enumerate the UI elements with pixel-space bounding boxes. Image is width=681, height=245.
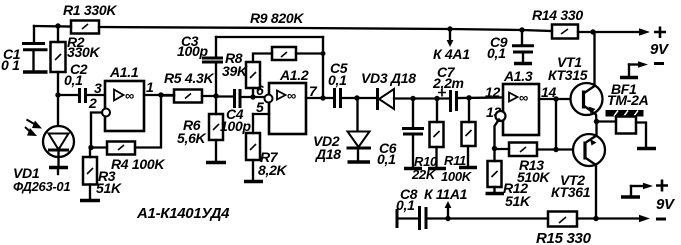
resistor R15 (548, 212, 640, 227)
label R8 39K (222, 50, 248, 79)
svg-text:ТМ-2A: ТМ-2A (607, 92, 649, 108)
node junction R11 (466, 95, 471, 100)
node junction pin13/R12/R13 (492, 146, 497, 151)
node junction K4A1/rail (447, 26, 452, 31)
wire A1.2 output (306, 97, 334, 99)
label minus top (654, 62, 664, 65)
svg-text:0,1: 0,1 (64, 72, 83, 88)
label R13 510K (517, 157, 550, 185)
node junction R8/pin6 wire (250, 94, 255, 99)
label plus bottom (656, 180, 668, 192)
svg-text:330K: 330K (67, 44, 100, 60)
resistor R1 (71, 21, 99, 34)
label R12 51K (503, 180, 531, 209)
capacitor C4 (235, 89, 265, 108)
ground C1 (23, 70, 48, 74)
resistor R9 (272, 47, 323, 60)
op-amp A1.2 (269, 83, 306, 134)
svg-text:A1-К1401УД4: A1-К1401УД4 (136, 205, 230, 222)
label C8 0,1 (396, 186, 418, 213)
label plus top (654, 27, 666, 39)
arrow bottom rail minus (639, 215, 650, 223)
label VD2 D18 (313, 133, 341, 162)
svg-text:39K: 39K (222, 63, 248, 79)
svg-text:3: 3 (94, 80, 102, 96)
capacitor C8 (420, 206, 549, 230)
node junction VT1 collector/rail (590, 29, 595, 34)
label C7 2,2m (432, 64, 464, 91)
label C5 0,1 (328, 60, 348, 88)
svg-text:14: 14 (541, 84, 556, 100)
resistor R14 (552, 25, 578, 39)
label R7 8,2K (258, 149, 288, 178)
svg-text:R15 330: R15 330 (536, 230, 592, 245)
svg-text:К 11A1: К 11A1 (424, 186, 468, 202)
svg-text:∞: ∞ (125, 88, 134, 103)
wire top rail left segment (34, 25, 71, 28)
resistor R11 (462, 98, 476, 166)
ground C9 (514, 62, 532, 66)
wire C3 feedback top (216, 36, 323, 38)
svg-text:9V: 9V (650, 41, 670, 58)
svg-text:8,2K: 8,2K (258, 162, 288, 178)
resistor R5 (161, 90, 216, 103)
svg-text:ФД263-01: ФД263-01 (13, 179, 70, 194)
arrow K 4A1 (447, 29, 454, 47)
node junction R10 (434, 96, 439, 101)
node junction pin14/R13 top (553, 96, 558, 101)
diode VD3 (378, 88, 451, 110)
label C1 0 1 (1, 46, 21, 73)
ground C6 (404, 167, 422, 171)
svg-text:R4 100K: R4 100K (111, 156, 165, 172)
svg-text:0,1: 0,1 (487, 45, 506, 61)
label C4 100p (220, 106, 251, 134)
wire top rail to plus terminal with arrow (578, 28, 650, 36)
capacitor C9 (512, 30, 534, 62)
wire pin2 to feedback node (91, 113, 102, 148)
connector minus top (620, 61, 648, 77)
resistor R6 (209, 96, 223, 161)
svg-text:100p: 100p (220, 118, 251, 134)
label R2 330K (67, 34, 100, 60)
wire R13 feedback vertical (555, 99, 557, 150)
svg-text:2,2m: 2,2m (432, 75, 464, 91)
svg-text:100p: 100p (177, 43, 208, 59)
svg-text:0,1: 0,1 (396, 197, 415, 213)
svg-text:VD3 Д18: VD3 Д18 (361, 70, 416, 86)
pin 2 inverting input circle (102, 109, 110, 117)
svg-text:R11: R11 (444, 153, 466, 168)
svg-text:КТ315: КТ315 (548, 67, 588, 83)
capacitor C7 (438, 89, 503, 113)
ground BF1 (637, 147, 656, 151)
node junction pin2/R4/R3 (88, 145, 93, 150)
photodiode VD1 (43, 95, 74, 166)
svg-text:6: 6 (256, 82, 264, 98)
transistor VT2 (573, 122, 605, 219)
svg-text:К 4A1: К 4A1 (433, 46, 470, 62)
label BF1 TM-2A (607, 81, 649, 108)
ground R11 (459, 166, 477, 170)
node junction VT2 collector/rail (593, 216, 598, 221)
ground R10 (428, 167, 446, 171)
wire feedback right vertical (322, 37, 324, 98)
wire A1.1 output (144, 94, 174, 96)
svg-text:R9 820K: R9 820K (250, 10, 304, 26)
svg-text:∞: ∞ (519, 90, 528, 105)
svg-text:9V: 9V (656, 196, 676, 213)
label R3 51K (96, 168, 122, 196)
label minus bottom (656, 218, 666, 221)
svg-text:510K: 510K (517, 169, 550, 185)
ground VD2 (348, 160, 371, 164)
svg-text:100K: 100K (441, 169, 473, 184)
diode VD2 (347, 98, 372, 160)
capacitor C3 (202, 37, 223, 96)
node junction R2/VD1/C2 (55, 92, 60, 97)
resistor R8 (246, 54, 272, 98)
label C9 0,1 (487, 34, 508, 61)
label C6 0,1 (377, 140, 397, 167)
svg-text:∞: ∞ (287, 88, 296, 103)
label C3 100p (177, 33, 208, 59)
wire top rail main segment (99, 27, 552, 31)
svg-text:2: 2 (88, 95, 97, 111)
node junction C9/rail (519, 27, 524, 32)
node junction R13/VT2 base (553, 147, 558, 152)
svg-text:51K: 51K (96, 180, 122, 196)
label C2 0,1 (64, 61, 88, 88)
wire pin13 down to feedback node (495, 120, 500, 149)
resistor R4 (91, 142, 135, 155)
capacitor C6 (402, 99, 424, 168)
svg-text:Д18: Д18 (315, 146, 341, 162)
ground R6 (206, 161, 226, 165)
resistor R3 (83, 148, 97, 200)
resistor R12 (488, 149, 502, 193)
transistor VT1 (571, 32, 603, 122)
svg-text:R1 330K: R1 330K (63, 2, 117, 18)
node junction R2/rail (55, 23, 60, 28)
svg-text:R5 4.3K: R5 4.3K (164, 70, 214, 86)
wire output down to R4 (135, 95, 161, 148)
wire bottom rail left terminal (397, 209, 419, 228)
ground R3 (80, 199, 100, 203)
label R10 22K (411, 154, 438, 182)
resistor R7 (246, 114, 260, 180)
light arrows VD1 (25, 120, 42, 137)
ground R7 (244, 180, 263, 184)
label R6 5,6K (177, 117, 207, 146)
svg-text:5,6K: 5,6K (177, 130, 207, 146)
svg-text:0 1: 0 1 (1, 57, 20, 73)
label VT1 KT315 (548, 54, 588, 83)
node junction emitters/BF1 (594, 119, 599, 124)
svg-text:A1.3: A1.3 (503, 68, 533, 84)
ground VD1 (49, 168, 68, 175)
svg-text:1: 1 (146, 79, 154, 95)
svg-text:22K: 22K (411, 167, 437, 182)
op-amp A1.3 (503, 84, 539, 135)
node junction output A1.1 (158, 92, 163, 97)
node junction R5/R6/C3/C4 (213, 93, 218, 98)
svg-text:A1.1: A1.1 (109, 64, 139, 80)
arrow K 11A1 (445, 201, 452, 218)
wire node to C4 (216, 95, 234, 97)
svg-text:КТ361: КТ361 (551, 184, 591, 200)
svg-text:0,1: 0,1 (328, 72, 347, 88)
node junction R9/feedback (321, 51, 326, 56)
node junction K11A1/rail (445, 216, 450, 221)
svg-text:51K: 51K (505, 193, 531, 209)
resistor R13 (495, 143, 584, 157)
sounder BF1 (597, 110, 647, 147)
svg-text:A1.2: A1.2 (279, 67, 309, 83)
capacitor C1 (22, 26, 48, 70)
wire A1.3 output to VT1 base (539, 98, 582, 100)
resistor R2 (51, 26, 66, 95)
label R11 100K (441, 153, 473, 184)
node junction VD2 (354, 95, 359, 100)
wire node to C2 (58, 94, 79, 96)
pin 13 inverting input circle (496, 111, 506, 121)
svg-text:12: 12 (485, 84, 500, 100)
capacitor C2 (80, 88, 106, 103)
svg-text:5: 5 (256, 99, 264, 115)
capacitor C5 (335, 88, 377, 108)
pin 6 inverting input circle (265, 95, 273, 103)
connector plus bottom (621, 183, 653, 197)
wire pin 5 (253, 113, 269, 115)
op-amp A1.1 (105, 81, 144, 131)
svg-text:0,1: 0,1 (377, 151, 396, 167)
label VT2 KT361 (551, 172, 591, 200)
node junction C6 (410, 96, 415, 101)
node junction feedback/output (320, 95, 325, 100)
ground R12 (486, 192, 505, 196)
resistor R10 (430, 99, 444, 168)
svg-text:R14 330: R14 330 (532, 7, 583, 23)
